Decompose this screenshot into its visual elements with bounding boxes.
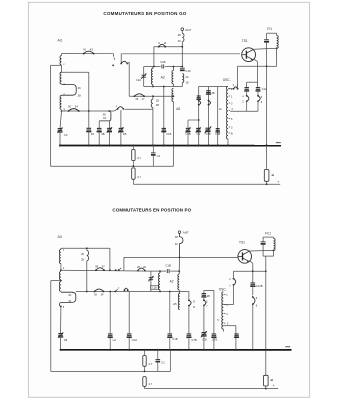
wire row 291 <box>76 291 151 293</box>
wire tap1 corner <box>109 248 111 270</box>
wire A5 PO top <box>178 292 181 294</box>
wire C19 branch bottom <box>181 83 183 87</box>
wire FC1 cap down <box>262 244 264 256</box>
switch contacts 41-43 <box>83 53 85 55</box>
wire R2 PO bottom <box>144 386 146 388</box>
wire R2 bottom <box>132 179 134 184</box>
transistor TS1 PO <box>238 250 252 264</box>
svg-text:1A: 1A <box>219 108 222 111</box>
svg-text:C12B: C12B <box>256 284 263 288</box>
wire node up PO <box>170 350 172 372</box>
contacts 4-2 <box>246 95 248 97</box>
pin tick 4 PO <box>224 312 226 314</box>
wire osc PO chain <box>203 297 205 300</box>
wire drop at selector <box>120 54 122 63</box>
junction collector tank <box>276 47 278 49</box>
junction osc rail cap <box>198 119 200 121</box>
capacitor C1B series PO <box>166 269 168 273</box>
wire tap to frame right <box>62 71 89 73</box>
svg-text:C1: C1 <box>157 154 161 158</box>
svg-text:FC1: FC1 <box>265 231 271 235</box>
svg-text:C1: C1 <box>161 361 165 365</box>
junction battery rail PO <box>265 388 267 390</box>
node line <box>51 165 174 167</box>
contacts osc left <box>198 100 200 102</box>
wire FC1 coil down <box>273 250 275 256</box>
junction bus 188 <box>187 144 189 146</box>
hook main left <box>113 54 115 57</box>
wire C12B mid <box>252 286 254 295</box>
svg-text:11: 11 <box>164 41 167 45</box>
wire A5 to bus <box>172 102 174 167</box>
wire cap4B lead up <box>120 110 122 128</box>
coil A2 secondary <box>172 71 174 84</box>
capacitor LA <box>108 333 113 335</box>
wire cap3B to bus <box>98 132 100 146</box>
junction A2 in <box>153 66 155 68</box>
capacitor C12B <box>251 282 256 284</box>
coil ANT taps 38-40 <box>182 33 184 41</box>
junction LA row <box>109 291 111 293</box>
wire coil plain segment <box>61 65 63 72</box>
capacitor C1B series <box>161 65 163 69</box>
wire battery bottom <box>266 181 268 184</box>
wire FI1 cap down <box>266 42 268 66</box>
trimmer capacitor C30 PO <box>202 332 207 334</box>
capacitor C1A <box>127 333 132 335</box>
junction A2 PO p top <box>159 270 161 272</box>
wire collector PO <box>249 249 273 252</box>
junction ANT switch <box>181 46 183 48</box>
pin tick 4 <box>229 110 231 112</box>
coil L26 tap <box>87 250 89 261</box>
svg-text:C1B: C1B <box>166 132 171 136</box>
wire L1 top <box>152 96 154 99</box>
wire C11 lead <box>246 91 248 95</box>
jumper bracket 30-34 PO <box>61 292 76 302</box>
svg-text:COMMUTATEURS EN POSITION PO: COMMUTATEURS EN POSITION PO <box>112 208 191 213</box>
wire osc coil tail <box>222 329 224 332</box>
contact tick main <box>119 268 122 270</box>
wire contacts down left <box>246 101 248 111</box>
resistor R1 <box>132 149 135 160</box>
battery polarity mark <box>271 174 274 176</box>
wire FI1 top <box>267 32 277 34</box>
resistor R2 PO <box>143 377 146 387</box>
switch contacts 30-34 <box>68 110 70 112</box>
contacts 6-8 <box>257 95 259 97</box>
coil A3 PO tail <box>59 303 61 307</box>
wire emitter diag PO <box>250 261 253 264</box>
junction bus2 204 <box>203 349 205 351</box>
wire C1 PO leads <box>157 350 159 360</box>
wire A3 top to main wire <box>61 54 63 56</box>
capacitor 18 <box>87 127 92 129</box>
wire emitter diag <box>254 59 258 62</box>
transistor TS1 <box>242 48 256 62</box>
contact dot lower <box>112 65 114 67</box>
junction emitter row <box>252 270 254 272</box>
wire osc bottom link <box>223 325 236 327</box>
wire osc link up PO <box>233 271 235 278</box>
svg-text:OSC.: OSC. <box>223 78 231 82</box>
contacts A5 <box>188 299 190 301</box>
wire osc left rail <box>198 87 200 146</box>
svg-text:C2: C2 <box>64 133 68 137</box>
capacitor C19 PO <box>168 333 173 335</box>
junction bus2 157 <box>157 349 159 351</box>
svg-text:39: 39 <box>95 264 99 268</box>
svg-text:ANT: ANT <box>183 231 189 235</box>
wire ANT lead <box>181 31 183 34</box>
wire R1 top <box>132 146 134 150</box>
wire R1 bottom <box>132 161 134 167</box>
coil 20-18 <box>182 74 184 83</box>
svg-text:A2: A2 <box>161 76 165 80</box>
trimmer capacitor C7B <box>205 127 210 129</box>
svg-text:OSC.: OSC. <box>219 287 227 291</box>
junction bus2 265 <box>265 349 267 351</box>
svg-text:C30: C30 <box>202 338 207 342</box>
wire bottom rail <box>133 183 280 185</box>
svg-text:2B: 2B <box>212 92 215 95</box>
wire ANT to A2 <box>178 257 180 271</box>
switch contacts c1a <box>124 289 126 291</box>
junction bus 121 <box>120 144 122 146</box>
wire osc PO right vert <box>213 290 215 334</box>
junction bus 109 <box>108 144 110 146</box>
wire osc left chain <box>198 99 200 100</box>
pin tick 1 PO <box>224 294 226 296</box>
switch contacts 15-17 <box>134 95 136 97</box>
wire battery bottom PO <box>265 386 267 389</box>
coil A2 primary <box>151 69 153 85</box>
wire A3 to trimmer C2 <box>60 111 62 129</box>
contact tick row291 <box>115 289 118 292</box>
wire A2 PO primary ends <box>159 271 161 273</box>
svg-text:15: 15 <box>135 97 139 101</box>
switch contacts 5-7 <box>120 63 122 65</box>
capacitor C11 <box>245 87 249 89</box>
wire emitter link drop <box>246 82 248 88</box>
junction bus2 170 <box>169 349 171 351</box>
contacts 5-7 PO <box>203 299 205 301</box>
capacitor C19 <box>180 67 185 69</box>
wire C2 to bus <box>59 132 61 146</box>
junction bus2 252 <box>252 349 254 351</box>
coil FI1 <box>276 33 278 35</box>
wire C12B to bus <box>252 304 254 350</box>
wire C3B up <box>187 120 189 128</box>
wire rise to main <box>123 257 125 270</box>
pin tick B <box>229 132 231 134</box>
svg-text:C7B: C7B <box>205 132 210 136</box>
svg-text:43: 43 <box>90 47 94 51</box>
wire FC1 top <box>263 236 273 238</box>
junction mid row A5 <box>173 95 175 97</box>
wire osc up link <box>237 66 239 89</box>
junction bus2 144 <box>143 349 145 351</box>
capacitor C1 <box>151 152 156 154</box>
svg-text:26: 26 <box>78 86 82 90</box>
svg-text:C2A: C2A <box>136 78 141 82</box>
wire C3B down <box>187 132 189 146</box>
wire FI1 coil down <box>276 48 278 66</box>
svg-text:A3: A3 <box>58 39 62 43</box>
contact dot row291 <box>114 291 116 293</box>
wire osc contact link <box>228 88 234 90</box>
junction C19 top <box>181 66 183 68</box>
trimmer capacitor C5B <box>107 127 112 129</box>
pin tick 2 <box>229 88 231 90</box>
capacitor 4B <box>119 127 124 129</box>
junction bus 197 <box>198 144 200 146</box>
trimmer capacitor C2 <box>58 128 63 130</box>
wire A2 left rail <box>143 67 145 87</box>
svg-text:4.7: 4.7 <box>137 175 141 179</box>
svg-text:C7B: C7B <box>191 338 197 342</box>
terminal ANT PO <box>178 231 181 234</box>
wire A2 secondary ends <box>172 67 174 71</box>
wire osc link down PO <box>233 285 235 305</box>
junction L26 top <box>86 247 88 249</box>
junction bus 266 <box>266 144 268 146</box>
wire switch row 9-11 <box>154 46 182 48</box>
battery B1 PO <box>264 375 269 386</box>
bus2 end tick <box>285 346 290 348</box>
junction A2 PO p bot <box>159 291 161 293</box>
wire C1 leads <box>152 146 154 153</box>
wire osc mid rail <box>217 87 219 146</box>
junction A2 primary bottom <box>152 86 154 88</box>
coil A3 lower section <box>60 95 62 109</box>
coil A3 PO upper <box>59 250 61 264</box>
wire emitter down <box>257 62 259 88</box>
wire osc PO left top <box>203 290 205 294</box>
wire A2 PO bottom rail <box>151 291 189 293</box>
bus top <box>59 145 281 147</box>
coil A2 PO primary <box>159 273 161 290</box>
capacitor osc left <box>197 95 201 97</box>
svg-text:A3: A3 <box>58 235 62 239</box>
trimmer capacitor C3B <box>186 127 190 129</box>
wire FI1 cap lead <box>266 33 268 39</box>
wire tap1 row <box>61 247 110 249</box>
capacitor osc PO <box>202 293 206 295</box>
wire FC1 cap lead <box>262 237 264 241</box>
junction bus2 60 <box>60 349 62 351</box>
bus bottom <box>61 349 292 351</box>
wire tap2 row <box>61 269 151 272</box>
junction collector tank PO <box>273 250 275 252</box>
capacitor C1 PO <box>156 359 161 361</box>
wire LA to bus <box>109 337 111 350</box>
wire osc PO left down <box>203 305 205 332</box>
coil A3 PO mid <box>59 272 61 280</box>
wire C7B2 PO to bus <box>213 337 215 350</box>
wire osc to tank link <box>238 65 267 67</box>
junction ANT main <box>179 257 181 259</box>
junction bus2 126 <box>128 349 130 351</box>
junction bus2 215 <box>213 349 215 351</box>
coil osc <box>227 87 229 140</box>
switch contacts 3-4 <box>117 108 119 110</box>
wire contact diag <box>114 109 117 111</box>
wire osc coil to bus <box>227 139 229 146</box>
wire R1 PO top <box>144 350 146 356</box>
switch contacts row291 <box>94 291 96 293</box>
jumper bracket contacts 26-28 <box>62 85 77 96</box>
wire A2 PO left rail <box>150 271 152 291</box>
svg-text:C12: C12 <box>262 87 267 91</box>
junction bus 164 <box>163 144 165 146</box>
junction bus2 110 <box>109 349 111 351</box>
svg-text:A2: A2 <box>170 279 174 283</box>
junction bus 228 <box>227 144 229 146</box>
contact dots main <box>115 269 117 271</box>
svg-text:3B: 3B <box>101 132 105 136</box>
wire A2 PO secondary ends <box>178 271 180 274</box>
wire C1A to bus <box>128 337 130 350</box>
wire drop to C1A <box>128 292 130 335</box>
wire emitter row PO <box>234 270 266 272</box>
junction bracket <box>108 110 110 112</box>
wire mid row <box>129 95 173 97</box>
wire main top right <box>121 53 240 55</box>
svg-text:34: 34 <box>75 105 79 109</box>
wire collector <box>253 48 277 49</box>
junction A2 secondary top <box>173 66 175 68</box>
wire C7B PO to bus <box>188 337 190 350</box>
junction bus 88 <box>88 144 90 146</box>
junction bus2 188 <box>179 349 181 351</box>
svg-text:+: + <box>277 180 279 184</box>
svg-text:1B: 1B <box>156 99 159 103</box>
switch contacts 2-1 <box>233 88 235 90</box>
junction A2 centre <box>163 86 165 88</box>
wire tap3 stub <box>51 280 61 282</box>
capacitor FC1 <box>261 241 266 243</box>
svg-text:C1A: C1A <box>132 338 138 342</box>
wire A2 bottom rail <box>144 86 174 88</box>
resistor R1 PO <box>143 356 146 367</box>
wire A2 top rail left <box>144 66 161 68</box>
wire ANT down <box>181 42 183 67</box>
wire C12B lead <box>252 271 254 283</box>
capacitor C12 <box>256 87 260 89</box>
junction bus 60 <box>59 144 61 146</box>
wire A3 top bend <box>60 248 62 249</box>
svg-text:C1B: C1B <box>172 337 177 341</box>
capacitor FI1 <box>264 39 269 41</box>
wire LA lead <box>109 292 111 335</box>
svg-text:37: 37 <box>102 264 106 268</box>
svg-text:A5: A5 <box>176 107 180 111</box>
capacitor C4B <box>216 128 220 130</box>
svg-text:LA: LA <box>113 338 117 342</box>
wire bottom rail PO <box>145 388 279 390</box>
svg-text:4.7: 4.7 <box>148 362 152 366</box>
capacitor 3B <box>97 127 102 129</box>
svg-text:ANT: ANT <box>185 28 191 32</box>
wire tap c stub left <box>51 64 62 66</box>
capacitor 2B <box>206 90 211 92</box>
wire emitter link <box>247 81 258 83</box>
trimmer capacitor C2A <box>142 74 146 76</box>
junction bus 99 <box>98 144 100 146</box>
capacitor C7B PO <box>187 333 192 335</box>
pin tick 6 <box>229 118 231 120</box>
wire osc PO top link <box>204 289 214 291</box>
junction tank battery line <box>266 65 268 67</box>
pin tick 3 <box>229 102 231 104</box>
wire A5 drop <box>188 306 190 334</box>
svg-text:A5: A5 <box>173 302 177 306</box>
wire A2 PO top rail <box>151 270 166 272</box>
wire battery line PO <box>265 256 267 375</box>
wire left rail down <box>50 65 52 166</box>
junction battery rail <box>266 183 268 185</box>
wire left rail PO <box>50 281 52 372</box>
junction rail C19 <box>169 291 171 293</box>
wire FC1 bottom <box>263 255 273 257</box>
junction bus 208 <box>207 144 209 146</box>
wire selector to mid row <box>127 62 129 63</box>
junction A3 PO bottom <box>60 306 62 308</box>
svg-text:COMMUTATEURS EN POSITION GO: COMMUTATEURS EN POSITION GO <box>103 11 187 16</box>
wire A2 primary ends <box>152 67 154 69</box>
svg-text:C1B: C1B <box>165 263 171 267</box>
wire A5 contacts corner <box>188 292 190 300</box>
coil FC1 <box>273 237 275 238</box>
junction frame bottom row <box>88 110 90 112</box>
wire contacts down right <box>257 101 259 111</box>
junction bus 133 <box>132 144 134 146</box>
pin tick 5 PO <box>224 322 226 324</box>
wire 9-11 corner down <box>153 47 155 67</box>
wire emitter down PO <box>252 263 254 271</box>
junction A3 bottom <box>61 110 63 112</box>
capacitor C4B PO <box>234 333 238 335</box>
svg-text:41: 41 <box>83 47 87 51</box>
wire main PO <box>124 256 238 258</box>
wire osc top rail <box>199 86 228 88</box>
svg-text:C1B: C1B <box>160 60 166 64</box>
junction emitter battery <box>265 270 267 272</box>
coil A5 <box>172 89 174 102</box>
wire cap18 to bus <box>88 132 90 146</box>
wire A2 centre drop <box>163 87 165 146</box>
wire osc tap3 link <box>223 304 233 306</box>
wire A3 bottom row <box>62 110 115 112</box>
wire left rail PO bottom <box>51 370 145 372</box>
junction A2 PO tr <box>178 270 180 272</box>
wire frame right down <box>88 72 90 128</box>
svg-text:30: 30 <box>68 105 72 109</box>
junction bus2 234 <box>235 349 237 351</box>
junction tap3 <box>60 280 62 282</box>
coil A3 upper section <box>60 56 62 66</box>
svg-text:C2B: C2B <box>152 287 157 290</box>
coil A3 mid section <box>60 72 62 84</box>
switch contacts 39-37 <box>95 269 97 271</box>
svg-text:LB: LB <box>64 338 68 342</box>
svg-text:+: + <box>273 383 275 387</box>
wire L26 top <box>86 248 88 250</box>
coil L1 tap winding <box>151 99 153 107</box>
terminal ANT <box>181 28 184 31</box>
coil A3 PO lower <box>59 282 61 292</box>
